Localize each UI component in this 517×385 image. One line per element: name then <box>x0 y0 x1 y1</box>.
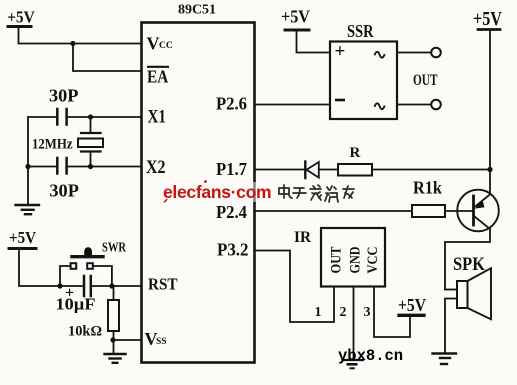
wire +5V right rail down to transistor <box>489 31 491 194</box>
speaker SPK body <box>457 281 468 308</box>
svg-text:+5V: +5V <box>398 295 426 315</box>
svg-text:10µF: 10µF <box>56 295 96 314</box>
svg-text:OUT: OUT <box>413 72 438 89</box>
wire collector to speaker <box>445 229 490 290</box>
watermark halo <box>160 182 358 202</box>
wire +5V stem to VCC rail <box>19 27 142 44</box>
junction node X2/rail <box>25 164 30 169</box>
wire R1k to base <box>445 210 472 212</box>
wire speaker terminal top <box>445 289 457 291</box>
svg-text:OUT: OUT <box>329 247 345 274</box>
svg-text:30P: 30P <box>49 85 79 105</box>
switch SWR bar <box>72 255 103 258</box>
svg-text:+: + <box>335 41 346 62</box>
svg-text:SS: SS <box>156 337 167 347</box>
wire X1 right segment <box>67 116 141 118</box>
svg-text:X1: X1 <box>148 107 167 128</box>
junction node X2/crystal <box>88 164 93 169</box>
transistor Q1 emitter <box>475 194 491 207</box>
transistor Q1 collector <box>475 217 491 230</box>
logo accent dot <box>204 180 207 183</box>
speaker SPK horn <box>468 268 492 319</box>
ground GND2 <box>105 353 126 355</box>
svg-text:P2.6: P2.6 <box>216 93 247 113</box>
wire EA branch <box>73 44 141 72</box>
switch SWR actuator <box>84 247 92 255</box>
wire left rail X1 to ground <box>27 117 29 205</box>
diode D1 cathode bar <box>304 162 306 179</box>
wire speaker terminal bottom <box>445 299 457 354</box>
wire R3 to ground <box>113 340 115 354</box>
SSR tilde top <box>375 52 385 58</box>
wire X2 left segment <box>28 166 57 168</box>
relay SSR body <box>330 42 397 120</box>
terminal circle top <box>431 48 441 58</box>
wire P2.6 to SSR minus input <box>255 104 330 106</box>
svg-text:ybx8.cn: ybx8.cn <box>338 347 403 365</box>
wire P1.7 to diode <box>255 169 305 171</box>
wire diode to R <box>319 169 338 171</box>
svg-text:1: 1 <box>315 305 322 320</box>
IR pin3 wire to +5V <box>374 287 410 338</box>
logo accent tail <box>164 199 167 202</box>
wire R to +5V rail <box>372 169 490 171</box>
power +5V IR bar <box>399 314 424 317</box>
wire P2.4 to R1k <box>255 210 412 212</box>
terminal circle bottom <box>431 100 441 110</box>
junction node R3/VSS <box>110 337 115 342</box>
svg-text:R1k: R1k <box>413 178 442 198</box>
svg-text:elecfans·com: elecfans·com <box>163 182 271 202</box>
svg-text:3: 3 <box>364 305 371 320</box>
wire C3 to RST pin <box>92 285 142 287</box>
svg-text:V: V <box>147 34 160 54</box>
svg-text:2: 2 <box>340 305 347 320</box>
junction node R/+5V rail <box>487 167 492 172</box>
svg-text:P3.2: P3.2 <box>217 239 249 259</box>
junction node at VCC/EA <box>70 41 75 46</box>
svg-text:+5V: +5V <box>473 8 502 30</box>
IR pin2 wire to ground <box>353 287 355 361</box>
SSR minus sign <box>335 99 345 102</box>
transistor Q1 base bar <box>472 196 475 225</box>
svg-text:P1.7: P1.7 <box>216 159 247 179</box>
capacitor C2 30P plates <box>56 158 59 174</box>
svg-text:+5V: +5V <box>281 7 310 27</box>
ground GND1 <box>16 204 40 206</box>
junction node X1/crystal <box>88 114 93 119</box>
transistor Q1 emitter arrow <box>475 200 485 208</box>
svg-text:CC: CC <box>159 41 173 51</box>
svg-text:12MHz: 12MHz <box>32 137 73 153</box>
resistor R body <box>338 164 372 176</box>
capacitor C1 30P plates <box>56 109 59 125</box>
crystal Y1 12MHz <box>90 117 92 133</box>
svg-text:SPK: SPK <box>453 254 485 275</box>
switch SWR terminals <box>71 263 77 269</box>
svg-text:IR: IR <box>294 229 311 246</box>
IR receiver body <box>321 228 385 287</box>
power +5V top-left bar <box>8 25 31 28</box>
power +5V SSR bar <box>285 29 309 32</box>
wire SSR AC out bottom <box>397 104 431 106</box>
resistor R3 10k body <box>113 286 115 300</box>
resistor R1k body <box>412 205 445 217</box>
svg-text:X2: X2 <box>146 157 166 178</box>
svg-text:30P: 30P <box>49 180 79 200</box>
wire SSR AC out top <box>397 52 431 54</box>
wire X1 left segment <box>28 116 57 118</box>
junction node switch-right/R3 <box>109 283 114 288</box>
watermark chinese characters <box>279 185 354 202</box>
svg-text:+5V: +5V <box>7 8 35 27</box>
svg-text:EA: EA <box>147 66 168 86</box>
svg-text:GND: GND <box>348 246 364 273</box>
diode D1 triangle <box>307 162 319 178</box>
capacitor C3 10uF plates <box>83 276 86 296</box>
svg-text:+5V: +5V <box>9 228 37 247</box>
svg-text:R: R <box>350 145 361 161</box>
svg-text:VCC: VCC <box>365 247 381 274</box>
svg-text:SSR: SSR <box>347 21 374 41</box>
svg-text:RST: RST <box>148 275 178 294</box>
svg-text:P2.4: P2.4 <box>216 202 247 222</box>
svg-text:10kΩ: 10kΩ <box>68 324 102 340</box>
ground GND4 <box>345 359 364 361</box>
svg-text:89C51: 89C51 <box>178 3 216 18</box>
IC U1 89C51 body <box>142 23 255 363</box>
junction node switch-left/wire <box>57 283 62 288</box>
wire switch left leg <box>60 266 71 286</box>
power +5V reset bar <box>9 247 36 250</box>
wire +5V to SSR plus input <box>297 31 331 53</box>
wire R3 to VSS <box>114 339 142 341</box>
wire switch right leg <box>93 266 112 286</box>
transistor Q1 circle <box>457 190 499 232</box>
wire P3.2 to IR pin1 <box>255 251 334 323</box>
ground GND3 <box>433 352 457 354</box>
power +5V right bar <box>478 28 500 31</box>
wire X2 right segment <box>67 166 141 168</box>
SSR tilde bottom <box>375 103 385 109</box>
wire +5V stem to RST rail <box>19 250 83 286</box>
svg-text:SWR: SWR <box>102 240 126 255</box>
